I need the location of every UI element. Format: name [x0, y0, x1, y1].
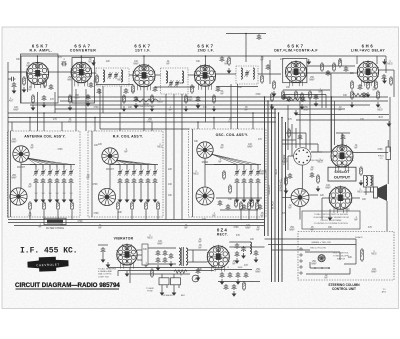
wire V1 plate drop	[54, 92, 56, 113]
svg-text:MF: MF	[198, 247, 202, 249]
V1 grid resistor cluster	[23, 76, 26, 86]
svg-text:MMF: MMF	[325, 187, 331, 189]
wire V2 to IFT1	[91, 72, 96, 74]
wire transformer to rectifier	[188, 249, 207, 251]
wire 6V6 socket leads	[322, 197, 329, 199]
wire B+ drop to output	[331, 97, 333, 152]
V6 diode resistors	[351, 80, 354, 90]
IF transformer T2 primary coil	[166, 71, 168, 83]
svg-text:MEG: MEG	[371, 253, 376, 255]
svg-text:5M: 5M	[70, 193, 73, 195]
svg-text:33K: 33K	[343, 95, 348, 97]
svg-text:10K: 10K	[94, 145, 99, 147]
wire trimmer bus antenna box	[30, 164, 75, 166]
svg-text:MMF: MMF	[247, 146, 253, 148]
spark plate capacitor	[101, 247, 106, 253]
svg-text:MF: MF	[93, 81, 97, 83]
tube V5 6SK7 det-lim-contr AF	[285, 60, 307, 86]
connector arrows below fuses	[160, 290, 165, 296]
oscillator trimmer drops	[236, 184, 238, 197]
svg-text:10K: 10K	[250, 239, 255, 241]
svg-text:MEG: MEG	[117, 79, 122, 81]
svg-text:2ND I.F.: 2ND I.F.	[198, 49, 215, 53]
svg-text:33K: 33K	[16, 59, 21, 61]
wire right section rail 120	[296, 119, 389, 121]
output transformer	[364, 176, 374, 188]
svg-text:470K: 470K	[93, 213, 99, 215]
oscillator coil trimmer row	[234, 169, 239, 176]
wire osc feed second vertical	[237, 84, 239, 129]
wire V2 osc grid drop to osc coil	[99, 89, 101, 129]
svg-text:MMF: MMF	[309, 79, 315, 81]
svg-text:VIBRATOR: VIBRATOR	[114, 237, 134, 241]
vibrator terminal block	[142, 244, 148, 265]
svg-text:470K: 470K	[93, 107, 99, 109]
svg-text:470K: 470K	[59, 225, 65, 227]
svg-text:MF: MF	[224, 63, 228, 65]
tube V6 6H6 lim-AVC delay	[357, 60, 379, 86]
detector network below V5	[271, 92, 274, 102]
svg-text:MMF: MMF	[259, 173, 265, 175]
muting switch in control unit	[318, 255, 325, 262]
svg-text:47K: 47K	[288, 119, 293, 121]
wire IFT2 to V4	[188, 74, 196, 76]
svg-text:MF: MF	[68, 121, 72, 123]
svg-text:MEG: MEG	[357, 191, 362, 193]
svg-text:MMF: MMF	[11, 141, 17, 143]
svg-text:ANT: ANT	[9, 100, 14, 103]
tube V3 6SK7 1st IF	[133, 64, 156, 91]
resistor horizontal below V5	[284, 97, 302, 100]
wire heater harness verticals	[117, 271, 119, 277]
svg-text:MMF: MMF	[255, 271, 261, 273]
svg-text:5M: 5M	[56, 193, 59, 195]
svg-text:MEG: MEG	[387, 63, 392, 65]
svg-text:10K: 10K	[168, 195, 173, 197]
osc box lower resistor row	[240, 201, 243, 211]
svg-text:MEG: MEG	[193, 173, 198, 175]
svg-text:MEG: MEG	[377, 109, 382, 111]
ground right end of rails	[387, 121, 392, 127]
svg-text:6V6=GT: 6V6=GT	[334, 169, 350, 174]
svg-text:10K: 10K	[196, 61, 201, 63]
svg-text:MMF: MMF	[282, 161, 288, 163]
svg-text:GREEN: GREEN	[268, 185, 271, 194]
filter capacitor 3	[254, 250, 259, 256]
ground below V6	[382, 78, 387, 84]
svg-text:5M: 5M	[42, 193, 45, 195]
wire tone switch leads	[288, 155, 294, 157]
svg-text:MEG: MEG	[157, 101, 162, 103]
wire IFT3 to V5	[258, 73, 281, 75]
IFT1 side trimmer caps	[97, 88, 102, 94]
svg-text:MEG: MEG	[317, 161, 322, 163]
svg-text:MF: MF	[310, 229, 314, 231]
buffer capacitor column 1	[156, 250, 161, 256]
wire V1 plate to T-network	[48, 71, 73, 73]
svg-text:MF: MF	[184, 227, 188, 229]
svg-text:470K: 470K	[177, 83, 183, 85]
svg-text:MF: MF	[28, 186, 32, 188]
svg-text:MF: MF	[28, 89, 32, 91]
electrolytic cluster row 2	[224, 284, 229, 290]
wire V5 to V6	[306, 72, 357, 74]
svg-text:MF: MF	[98, 227, 102, 229]
svg-text:MF: MF	[88, 61, 92, 63]
wire fuse feeds	[161, 274, 163, 278]
svg-text:33K: 33K	[328, 227, 333, 229]
ammeter	[192, 275, 199, 282]
svg-text:BAT.: BAT.	[379, 116, 384, 119]
wire IFT1 to V3	[129, 74, 133, 76]
ground at antenna input	[12, 88, 17, 94]
ground right of V6	[382, 59, 387, 65]
capacitor above 6V6	[341, 134, 346, 140]
svg-text:MF: MF	[338, 61, 342, 63]
capacitor heater bypass	[196, 268, 201, 274]
wire V2 drops to RF coil	[75, 89, 77, 131]
wire electrolytic bus	[214, 269, 252, 271]
wire volume pot leads	[299, 207, 301, 220]
svg-text:GREEN = YELLOW: GREEN = YELLOW	[311, 242, 331, 244]
wire detector row links	[283, 89, 330, 91]
svg-text:MF: MF	[86, 177, 90, 179]
svg-text:10K: 10K	[362, 199, 367, 201]
wire rail 5	[8, 112, 276, 114]
wire fan antenna coil to trimmer contacts	[27, 158, 36, 165]
wire det to output stage	[311, 151, 331, 153]
svg-text:10K: 10K	[168, 184, 173, 186]
svg-text:33K: 33K	[228, 199, 233, 201]
svg-text:MF: MF	[354, 219, 358, 221]
antenna series capacitor	[10, 77, 16, 81]
electrolytic cluster right of rectifier	[220, 272, 225, 278]
Chevrolet bowtie logo	[27, 256, 68, 272]
fuse block A	[159, 278, 169, 285]
wire right column link 3	[282, 143, 318, 145]
svg-text:LIGHT SW.: LIGHT SW.	[98, 276, 109, 278]
wire B+ rail 2	[60, 100, 388, 102]
wire harness third into control unit	[272, 249, 311, 251]
cable bus wire red	[274, 109, 276, 282]
svg-text:47K: 47K	[258, 139, 263, 141]
label box 6V6-GT OUTPUT	[328, 167, 356, 181]
IF transformer T2 trimmers	[168, 80, 173, 87]
svg-text:DET.=LIM.=CONTR·A.F: DET.=LIM.=CONTR·A.F	[274, 49, 318, 53]
wire right edge vertical	[393, 70, 395, 97]
RF box lower resistor row	[117, 201, 120, 211]
svg-text:RED & YELLOW: RED & YELLOW	[310, 248, 326, 250]
wire V3 drop	[143, 87, 145, 131]
svg-text:10K: 10K	[286, 87, 291, 89]
wire rail drops into antenna box	[11, 122, 13, 131]
svg-text:22K: 22K	[106, 61, 111, 63]
wire grid/AVC top rail	[21, 55, 386, 57]
wire harness bottom 3	[14, 225, 264, 227]
cable bus wire black	[271, 105, 273, 282]
svg-text:22K: 22K	[98, 144, 103, 146]
wire harness red-yellow into control unit	[268, 244, 356, 246]
wire rail 6	[8, 117, 276, 119]
control unit connector pins	[300, 248, 302, 250]
wire harness bottom 2	[8, 222, 264, 224]
svg-text:IN SLIDE POSITION. VIEWED FROM: IN SLIDE POSITION. VIEWED FROM	[313, 217, 348, 219]
tube V2 6SA7 converter	[71, 61, 92, 86]
capacitor 4MMF coupling V1-V2	[61, 62, 67, 66]
svg-text:MEG: MEG	[147, 237, 152, 239]
wire V5 grid cap lead	[226, 33, 266, 35]
svg-text:33K: 33K	[238, 87, 243, 89]
wire V1 grid drop to antenna coil	[37, 92, 39, 131]
svg-text:22K: 22K	[202, 219, 207, 221]
RF tuning condenser	[98, 188, 115, 205]
svg-text:47K: 47K	[280, 59, 285, 61]
svg-text:47K: 47K	[236, 235, 241, 237]
svg-text:5M: 5M	[49, 193, 52, 195]
wire rail drops right section	[287, 105, 289, 150]
oscillator tuning condenser	[196, 187, 214, 205]
wire trimmer feed verticals RF	[119, 165, 121, 170]
svg-text:DIAL LIGHTS: DIAL LIGHTS	[98, 273, 112, 276]
svg-text:OSC. COIL ASS'Y.: OSC. COIL ASS'Y.	[216, 133, 249, 137]
svg-text:47K: 47K	[58, 57, 63, 59]
tone switch	[294, 148, 311, 165]
svg-text:470K: 470K	[92, 184, 98, 186]
wire heater harness	[108, 267, 214, 269]
wire top rail drop right to 6H6	[385, 56, 387, 73]
svg-text:FILTER CHOKE: FILTER CHOKE	[46, 227, 64, 230]
wire inside-box verticals left edges	[10, 131, 12, 217]
wire IFT2 drop	[173, 94, 175, 220]
cable bus wire 7	[285, 122, 287, 231]
RF coil padder caps	[118, 178, 123, 184]
svg-text:470K: 470K	[77, 221, 83, 223]
resistor 500M tone control below V3	[134, 99, 158, 102]
antenna box lower resistor row	[29, 201, 32, 211]
svg-text:470K: 470K	[255, 94, 261, 96]
cable bus wire brown	[278, 113, 280, 282]
speaker	[374, 184, 388, 201]
svg-text:MMF: MMF	[147, 121, 153, 123]
IF transformer T1 trimmer capacitors	[107, 72, 112, 79]
wire vibrator to transformer	[148, 247, 176, 249]
IF transformer T3 secondary coil	[253, 68, 254, 79]
shield box around V1	[21, 54, 59, 103]
IF transformer T3 dashed box	[236, 66, 258, 84]
svg-text:MF: MF	[288, 207, 292, 209]
svg-text:MMF: MMF	[245, 227, 251, 229]
svg-text:22K: 22K	[302, 191, 307, 193]
antenna coil padder caps	[34, 178, 39, 184]
V3 grid components	[132, 84, 135, 94]
cluster between IFT3 and V5	[261, 74, 264, 84]
wire fan osc coil to trimmer contacts	[211, 154, 237, 165]
svg-text:R.F. AMPL.: R.F. AMPL.	[30, 49, 53, 53]
svg-text:22K: 22K	[168, 169, 173, 171]
svg-text:FUSE: FUSE	[147, 290, 153, 292]
wire V4 top to rail	[205, 56, 207, 66]
svg-text:47K: 47K	[244, 265, 249, 267]
wire speaker down lead	[386, 201, 388, 231]
svg-text:33K: 33K	[203, 107, 208, 109]
power transformer primary winding	[179, 248, 181, 265]
IF transformer T1 dashed box	[96, 68, 129, 86]
wire speaker field connections	[387, 160, 389, 185]
oscillator series components	[223, 170, 226, 180]
wire black loop inside control unit	[355, 239, 357, 264]
field coil	[386, 147, 391, 160]
svg-text:CONVERTER: CONVERTER	[70, 49, 96, 53]
wire rail drops into osc box	[197, 122, 199, 129]
wire coil bus links	[21, 164, 36, 166]
wire stage link segments	[96, 84, 133, 86]
volume control potentiometer	[291, 189, 309, 207]
osc lower right cluster caps	[218, 200, 223, 206]
antenna coil adjustable core	[13, 146, 29, 162]
bias network below V1	[32, 94, 35, 104]
svg-text:MF: MF	[168, 109, 172, 111]
svg-text:22K: 22K	[320, 195, 325, 197]
svg-text:MF: MF	[338, 109, 342, 111]
svg-text:1ST I.F.: 1ST I.F.	[135, 49, 151, 53]
svg-text:33K: 33K	[194, 141, 199, 143]
svg-text:MF: MF	[244, 109, 248, 111]
svg-text:BAT.: BAT.	[181, 294, 186, 297]
svg-text:SPEAKER: SPEAKER	[163, 294, 173, 297]
svg-text:ANT.: ANT.	[382, 291, 387, 294]
svg-text:VOL. CONTROL: VOL. CONTROL	[333, 253, 349, 255]
svg-text:MF: MF	[232, 263, 236, 265]
svg-text:22K: 22K	[348, 257, 353, 259]
cable bus wire green	[267, 101, 269, 236]
svg-text:MMF: MMF	[289, 229, 295, 231]
wire antenna coil to trimmers	[20, 162, 22, 188]
svg-text:MMF: MMF	[11, 177, 17, 179]
wire trimmer bus osc box	[214, 164, 261, 166]
osc lower cluster links	[216, 197, 262, 199]
vibrator unit	[116, 243, 137, 268]
svg-text:TONE CONTROL: TONE CONTROL	[137, 106, 155, 108]
IF transformer T3 trimmer	[244, 70, 249, 77]
RF coil adjustable core	[102, 148, 118, 164]
V4 grid components	[191, 84, 194, 94]
filter choke coil	[250, 242, 252, 254]
svg-text:47K: 47K	[50, 99, 55, 101]
svg-text:& PANEL AND: & PANEL AND	[98, 270, 113, 273]
svg-text:MF: MF	[166, 63, 170, 65]
wire trimmer feed verticals osc	[236, 165, 238, 170]
coupling capacitors det to AF	[288, 173, 293, 179]
wire V3 top to rail	[143, 56, 145, 65]
wire control unit lower run	[306, 273, 350, 275]
svg-text:22K: 22K	[131, 91, 136, 93]
wire harness green-yellow into control unit	[265, 238, 357, 240]
oscillator coil assembly dashed box	[189, 129, 267, 217]
svg-text:YELLOW: YELLOW	[265, 169, 268, 180]
wire lower row drops antenna	[29, 211, 31, 220]
svg-text:MF: MF	[30, 147, 34, 149]
underline of title	[16, 288, 120, 290]
svg-text:MF: MF	[260, 59, 264, 61]
wire vibrator leads	[137, 249, 142, 251]
wire control unit internal runs	[305, 251, 340, 253]
power transformer core	[181, 247, 183, 266]
wire bus to tone switch links	[282, 139, 296, 141]
ground left of vibrator	[106, 262, 111, 268]
junction dots on rails	[29, 117, 31, 119]
svg-text:TONE (ON-OFF): TONE (ON-OFF)	[333, 256, 349, 258]
filter capacitor bank right of 0Z4	[235, 243, 240, 249]
svg-text:BLACK: BLACK	[272, 201, 275, 210]
wire V6 top connections	[356, 56, 358, 64]
svg-text:10K: 10K	[118, 212, 123, 214]
cathode resistor 6V6	[360, 166, 363, 176]
cable bus wire 6	[281, 118, 283, 283]
IF transformer T1 primary coil	[103, 70, 105, 82]
wire fuse drops	[161, 285, 163, 290]
wire V3 to IFT2	[155, 74, 161, 76]
rectifier tube 0Z4	[207, 245, 230, 272]
screen network below V2	[69, 94, 72, 104]
IF transformer T3 primary coil	[241, 68, 242, 79]
ground vibrator	[125, 271, 130, 277]
RF coil assembly dashed box	[88, 131, 163, 217]
wire V2 top to rail	[80, 56, 82, 63]
svg-text:MF: MF	[38, 226, 42, 228]
wire fan RF coil to trimmer contacts	[116, 160, 120, 165]
wire screen rail	[55, 108, 345, 110]
steering column control dashed box	[298, 232, 394, 281]
wire AVC rail	[30, 104, 370, 106]
wire trimmer feed verticals antenna	[35, 165, 37, 170]
tone switch note box	[302, 211, 360, 229]
svg-text:10K: 10K	[128, 107, 133, 109]
svg-text:MF: MF	[372, 89, 376, 91]
svg-text:SPKR=YEL: SPKR=YEL	[280, 178, 283, 192]
fuse block B	[171, 278, 181, 285]
RF coil trimmer row	[117, 169, 122, 176]
svg-text:47K: 47K	[53, 119, 58, 121]
wire right column vertical 292	[291, 124, 293, 156]
svg-text:MMF: MMF	[62, 61, 68, 63]
resistor horizontal near V6	[352, 93, 368, 96]
capacitor antenna to ground	[12, 82, 17, 88]
wire lower row drops osc	[240, 211, 242, 220]
svg-text:MF: MF	[318, 91, 322, 93]
IF transformer T2 secondary coil	[182, 71, 184, 83]
ground near V2 top	[91, 60, 96, 66]
cable bus wire yellow	[264, 97, 266, 236]
svg-text:47K: 47K	[368, 227, 373, 229]
svg-text:A: A	[195, 277, 197, 281]
svg-text:BLACK: BLACK	[355, 236, 363, 239]
resistor below transformer	[174, 270, 187, 273]
antenna lead-in wire	[7, 62, 9, 218]
svg-text:MMF: MMF	[303, 109, 309, 111]
antenna trimmer drops to harness	[35, 184, 37, 197]
oscillator coil adjustable core	[197, 142, 213, 158]
tube V1 6SK7 RF amplifier	[26, 61, 49, 88]
svg-text:MMF: MMF	[13, 109, 19, 111]
antenna tuning condenser	[10, 188, 27, 205]
svg-text:MMF: MMF	[157, 243, 163, 245]
svg-text:COUNTER-CLOCKWISE POSITION.: COUNTER-CLOCKWISE POSITION.	[314, 223, 349, 225]
wire top rail drop left	[20, 56, 22, 103]
svg-text:5M: 5M	[35, 193, 38, 195]
svg-text:5M: 5M	[63, 193, 66, 195]
oscillator padder caps	[235, 178, 240, 184]
svg-text:MF: MF	[212, 215, 216, 217]
